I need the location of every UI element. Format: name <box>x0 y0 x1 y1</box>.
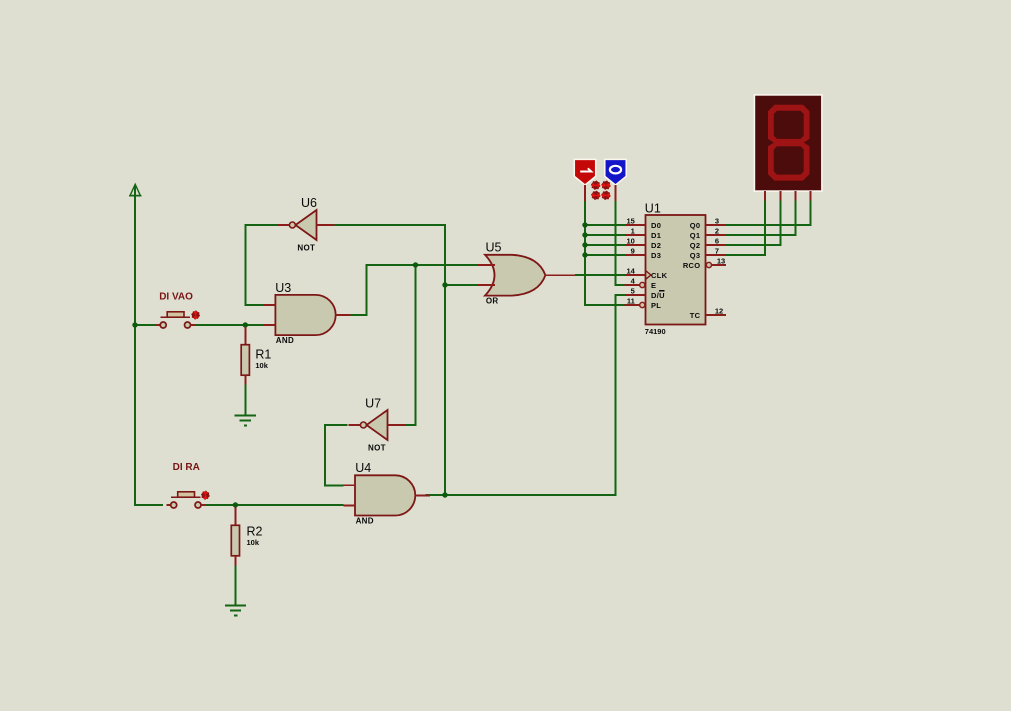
logic state 0 flag <box>605 159 626 201</box>
wire D2 tap <box>585 244 626 246</box>
wire U1 Q3 to display pin <box>726 200 765 255</box>
wire DI VAO row left stub <box>135 324 156 326</box>
wire U4 output to U1 D/U pin <box>445 295 626 495</box>
actuator marker logic state 0a <box>591 191 601 201</box>
svg-text:D0: D0 <box>651 221 661 230</box>
svg-text:U6: U6 <box>301 196 317 210</box>
svg-text:9: 9 <box>631 247 635 256</box>
wire logic 1 rail to D0-D3 and PL <box>585 201 625 306</box>
resistor R1 <box>241 327 249 385</box>
svg-text:11: 11 <box>627 297 635 306</box>
svg-text:PL: PL <box>651 301 661 310</box>
wire U6 output to U3 upper input <box>245 225 277 305</box>
and-gate U3 <box>264 295 351 335</box>
svg-text:CLK: CLK <box>651 271 668 280</box>
svg-text:Q3: Q3 <box>690 251 701 260</box>
wire D0 tap <box>585 224 626 226</box>
svg-text:3: 3 <box>715 217 719 226</box>
wire U1 Q1 to display pin <box>726 200 796 235</box>
wire U1 Q2 to display pin <box>726 200 781 245</box>
svg-text:10: 10 <box>626 237 634 246</box>
node DI VAO / R1 / U3 input <box>243 322 248 327</box>
svg-text:NOT: NOT <box>297 243 315 252</box>
push button DI RA <box>167 492 206 508</box>
svg-text:D2: D2 <box>651 241 661 250</box>
svg-text:10k: 10k <box>255 361 268 370</box>
svg-text:Q1: Q1 <box>690 231 701 240</box>
actuator marker DI RA button <box>201 491 210 500</box>
wire R1 to ground <box>244 385 246 416</box>
svg-text:12: 12 <box>715 307 723 316</box>
svg-text:R2: R2 <box>247 525 263 539</box>
svg-text:D/U: D/U <box>651 291 665 300</box>
wire D1 tap <box>585 234 626 236</box>
svg-text:7: 7 <box>715 247 719 256</box>
node logic1 / D1 <box>582 232 587 237</box>
actuator marker logic state 1b <box>601 180 611 190</box>
svg-text:14: 14 <box>626 267 635 276</box>
wire D3 tap <box>585 254 626 256</box>
svg-text:U1: U1 <box>645 202 661 216</box>
svg-text:5: 5 <box>631 287 635 296</box>
wire R2 to ground <box>234 565 236 606</box>
svg-text:U3: U3 <box>275 281 291 295</box>
svg-text:OR: OR <box>486 297 499 306</box>
wire U6 input from U4 output node <box>335 225 446 285</box>
wire left rail from power arrow to DI RA row <box>135 187 163 505</box>
7-segment display <box>754 95 822 201</box>
svg-text:D3: D3 <box>651 251 661 260</box>
node DI RA / R2 / U4 input <box>233 502 238 507</box>
actuator marker logic state 1a <box>591 180 601 190</box>
or-gate U5 <box>478 255 576 296</box>
wire node to OR gate input 2 <box>445 284 478 286</box>
logic state 1 flag <box>574 159 595 201</box>
ground below R1 <box>235 416 256 426</box>
node U4 output junction <box>442 492 447 497</box>
node U3 output net to U7 <box>413 262 418 267</box>
and-gate U4 <box>344 475 431 515</box>
svg-text:TC: TC <box>690 311 701 320</box>
actuator marker DI VAO button <box>191 311 200 320</box>
wire DI RA button output to U4 lower input <box>205 504 343 506</box>
svg-text:10k: 10k <box>247 538 260 547</box>
svg-text:NOT: NOT <box>368 443 386 452</box>
svg-text:1: 1 <box>631 227 635 236</box>
svg-text:AND: AND <box>356 516 374 525</box>
svg-text:E: E <box>651 281 656 290</box>
wire logic 0 to U1 E pin <box>616 201 625 286</box>
wire U7 output to U4 upper input <box>325 425 347 486</box>
svg-text:2: 2 <box>715 227 719 236</box>
ground below R2 <box>225 606 246 616</box>
wire OR gate output to U1 CLK <box>575 274 630 276</box>
not-gate U6 <box>277 210 334 240</box>
not-gate U7 <box>348 410 405 440</box>
svg-text:Q2: Q2 <box>690 241 701 250</box>
svg-text:13: 13 <box>717 257 725 266</box>
svg-text:RCO: RCO <box>683 261 701 270</box>
power terminal arrow <box>129 184 141 196</box>
ic U1 74190 body <box>625 215 726 325</box>
svg-text:6: 6 <box>715 237 719 246</box>
node left rail / DI VAO <box>132 322 137 327</box>
push button DI VAO <box>156 312 195 328</box>
svg-text:U4: U4 <box>355 461 371 475</box>
svg-text:Q0: Q0 <box>690 221 701 230</box>
node logic1 / D2 <box>582 242 587 247</box>
node logic1 / D3 <box>582 252 587 257</box>
svg-text:D1: D1 <box>651 231 661 240</box>
svg-text:R1: R1 <box>255 348 271 362</box>
svg-text:AND: AND <box>276 336 294 345</box>
svg-text:DI VAO: DI VAO <box>159 292 193 303</box>
svg-text:U5: U5 <box>486 241 502 255</box>
wire U4 output node vertical <box>444 285 446 495</box>
wire DI VAO button output to U3 lower input <box>194 324 264 326</box>
wire U3 output to OR gate input 1 <box>350 265 478 315</box>
node U4 output net to OR input 2 <box>442 282 447 287</box>
svg-text:74190: 74190 <box>645 327 666 336</box>
actuator marker logic state 0b <box>601 191 611 201</box>
svg-text:U7: U7 <box>365 397 381 411</box>
resistor R2 <box>231 507 239 565</box>
svg-text:15: 15 <box>626 217 634 226</box>
node logic1 / D0 <box>582 222 587 227</box>
svg-text:DI RA: DI RA <box>173 462 200 473</box>
wire U4 output <box>425 494 445 496</box>
wire U1 Q0 to display pin <box>726 200 811 225</box>
wire node to U7 input <box>400 265 416 425</box>
